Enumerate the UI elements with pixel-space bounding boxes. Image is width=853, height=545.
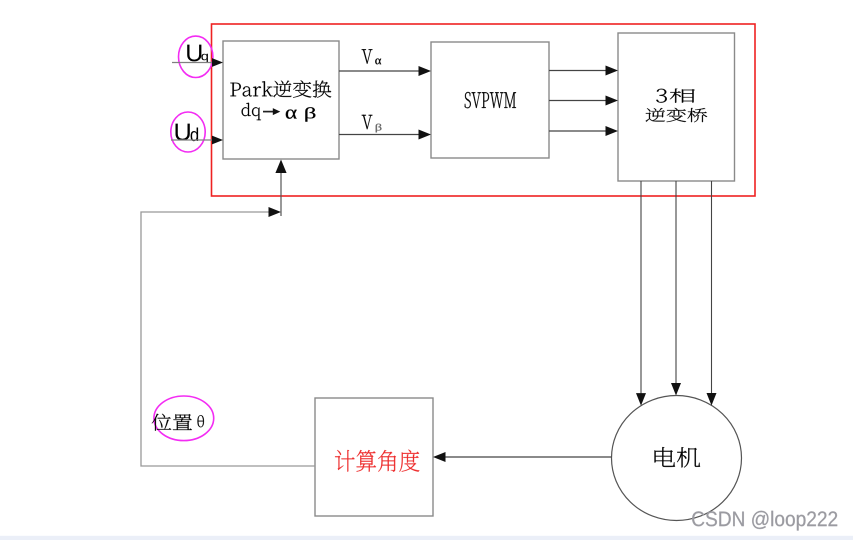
bottom page bar [0,536,853,540]
label Uq: U [187,45,201,62]
label dq [242,103,261,120]
watermark CSDN @loop222 [692,511,837,531]
red boundary box around Park/SVPWM/inverter section [212,24,756,196]
wire SVPWM to bridge phase 3 [549,130,608,132]
label Park逆变换 [230,80,331,97]
label arrow glyph in dq->ab [263,111,274,113]
wire Uq into Park block [172,62,213,64]
label SVPWM [465,92,516,108]
block U3 3-phase inverter bridge [618,33,735,181]
label 逆变桥 [646,108,708,122]
wire feedback vertical into Park bottom [280,171,282,216]
label 相 [670,89,695,103]
wire Vbeta Park to SVPWM [339,134,421,136]
wire bridge to motor phase A [640,181,642,395]
label 计算角度 (red) [335,450,419,472]
wire SVPWM to bridge phase 1 [549,70,608,72]
label Uq: subscript q [201,54,208,63]
label V alpha: V [362,49,373,63]
label alpha [286,110,297,119]
wire bridge to motor phase C [711,181,713,395]
wire motor to angle-calculation block [444,456,612,458]
wire Ud into Park block [171,139,213,141]
motor M1 (circle) [612,396,742,521]
node position theta (magenta ellipse) [154,396,214,441]
label Ud: subscript d [191,128,199,142]
label 电机 [655,447,701,467]
label Ud: U [176,124,190,141]
label beta [305,107,315,121]
node Ud input (magenta ellipse) [171,112,205,152]
label 位置 [152,414,192,431]
label V alpha: subscript [375,59,381,65]
label 3 [656,89,667,103]
wire bridge to motor phase B [675,181,677,385]
block U2 SVPWM [431,42,549,158]
label V beta: subscript [376,124,382,133]
label V beta: V [362,115,373,129]
block U1 Park inverse transform [223,41,339,159]
node Uq input (magenta ellipse) [179,36,213,77]
wire Valpha Park to SVPWM [339,70,421,72]
wire feedback: calc block left, down-left-up loop [141,212,315,466]
block U4 angle calculation (计算角度) [315,398,433,516]
label θ [198,415,204,427]
wire SVPWM to bridge phase 2 [549,100,608,102]
